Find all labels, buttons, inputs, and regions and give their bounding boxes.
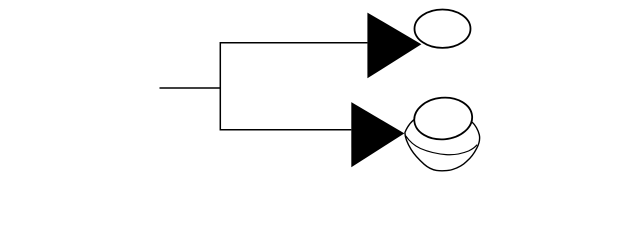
bell B1 bowl and skirt outline [405,113,480,171]
amplifier A1 (top buffer triangle) [367,13,421,79]
bell B1 dome [412,95,473,141]
amplifier A2 (bottom buffer triangle) [351,102,404,167]
wire: branch bus (vertical with top and bottom branch wires) [220,43,367,130]
wire: input lead into junction [160,87,221,89]
lamp L1 (ellipse on top output) [415,10,471,48]
bell B1 rim line [406,136,477,155]
